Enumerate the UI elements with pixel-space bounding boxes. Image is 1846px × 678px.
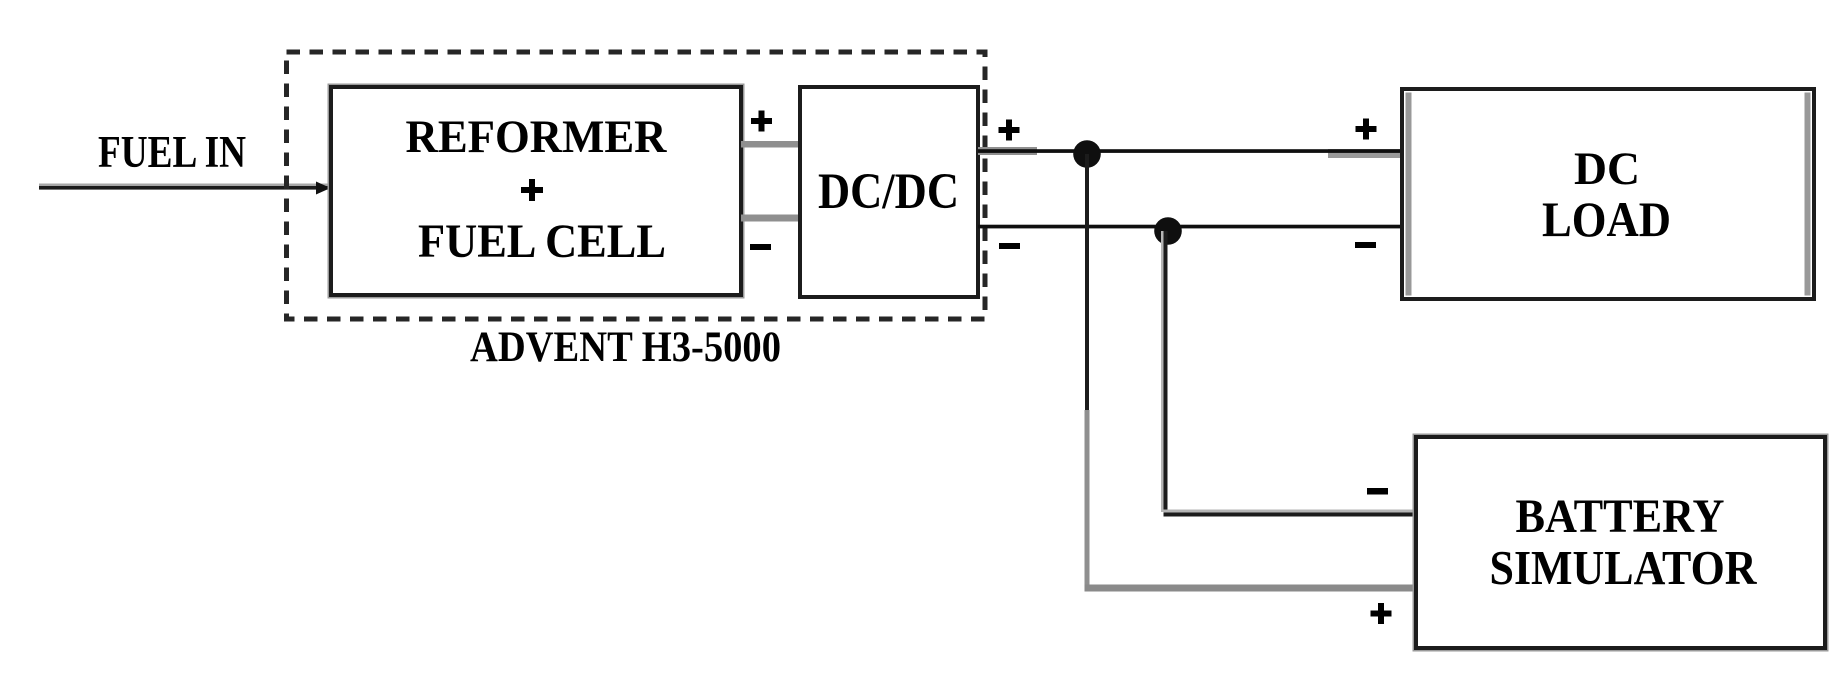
wire positive DC/DC to DC LOAD bbox=[978, 147, 1403, 158]
svg-text:DC/DC: DC/DC bbox=[818, 164, 959, 220]
svg-text:SIMULATOR: SIMULATOR bbox=[1490, 540, 1758, 595]
block DC/DC bbox=[800, 87, 978, 297]
wire negative bus to BATTERY SIMULATOR bbox=[1161, 231, 1416, 517]
svg-text:DC: DC bbox=[1574, 143, 1640, 195]
label − (BATTERY SIMULATOR input) bbox=[1367, 488, 1388, 495]
label + (DC LOAD input) bbox=[1356, 119, 1377, 140]
label + (DC/DC output) bbox=[999, 120, 1020, 141]
wire negative REFORMER to DC/DC bbox=[741, 215, 802, 222]
junction dot positive bus bbox=[1073, 140, 1101, 168]
wire positive REFORMER to DC/DC bbox=[741, 141, 802, 148]
label − (DC/DC output) bbox=[999, 243, 1020, 249]
svg-text:FUEL CELL: FUEL CELL bbox=[418, 215, 666, 268]
block DC LOAD bbox=[1402, 89, 1814, 299]
svg-text:FUEL IN: FUEL IN bbox=[98, 127, 246, 177]
block BATTERY SIMULATOR bbox=[1416, 437, 1825, 648]
label − (DC LOAD input) bbox=[1355, 242, 1376, 248]
arrowhead fuel inlet bbox=[316, 182, 331, 195]
wire negative DC/DC to DC LOAD bbox=[978, 225, 1403, 229]
svg-text:ADVENT H3-5000: ADVENT H3-5000 bbox=[470, 324, 781, 371]
junction dot negative bus bbox=[1154, 217, 1182, 245]
svg-text:BATTERY: BATTERY bbox=[1516, 490, 1725, 543]
enclosure ADVENT H3-5000 dashed box bbox=[287, 52, 986, 319]
label − (REFORMER output) bbox=[750, 244, 771, 250]
label + (REFORMER output) bbox=[751, 111, 772, 132]
block REFORMER + FUEL CELL bbox=[331, 87, 741, 295]
label + (BATTERY SIMULATOR input) bbox=[1371, 603, 1392, 624]
wire fuel inlet line bbox=[39, 184, 331, 190]
svg-text:LOAD: LOAD bbox=[1542, 191, 1671, 247]
wire positive bus to BATTERY SIMULATOR bbox=[1085, 154, 1417, 592]
svg-text:REFORMER: REFORMER bbox=[406, 111, 668, 163]
